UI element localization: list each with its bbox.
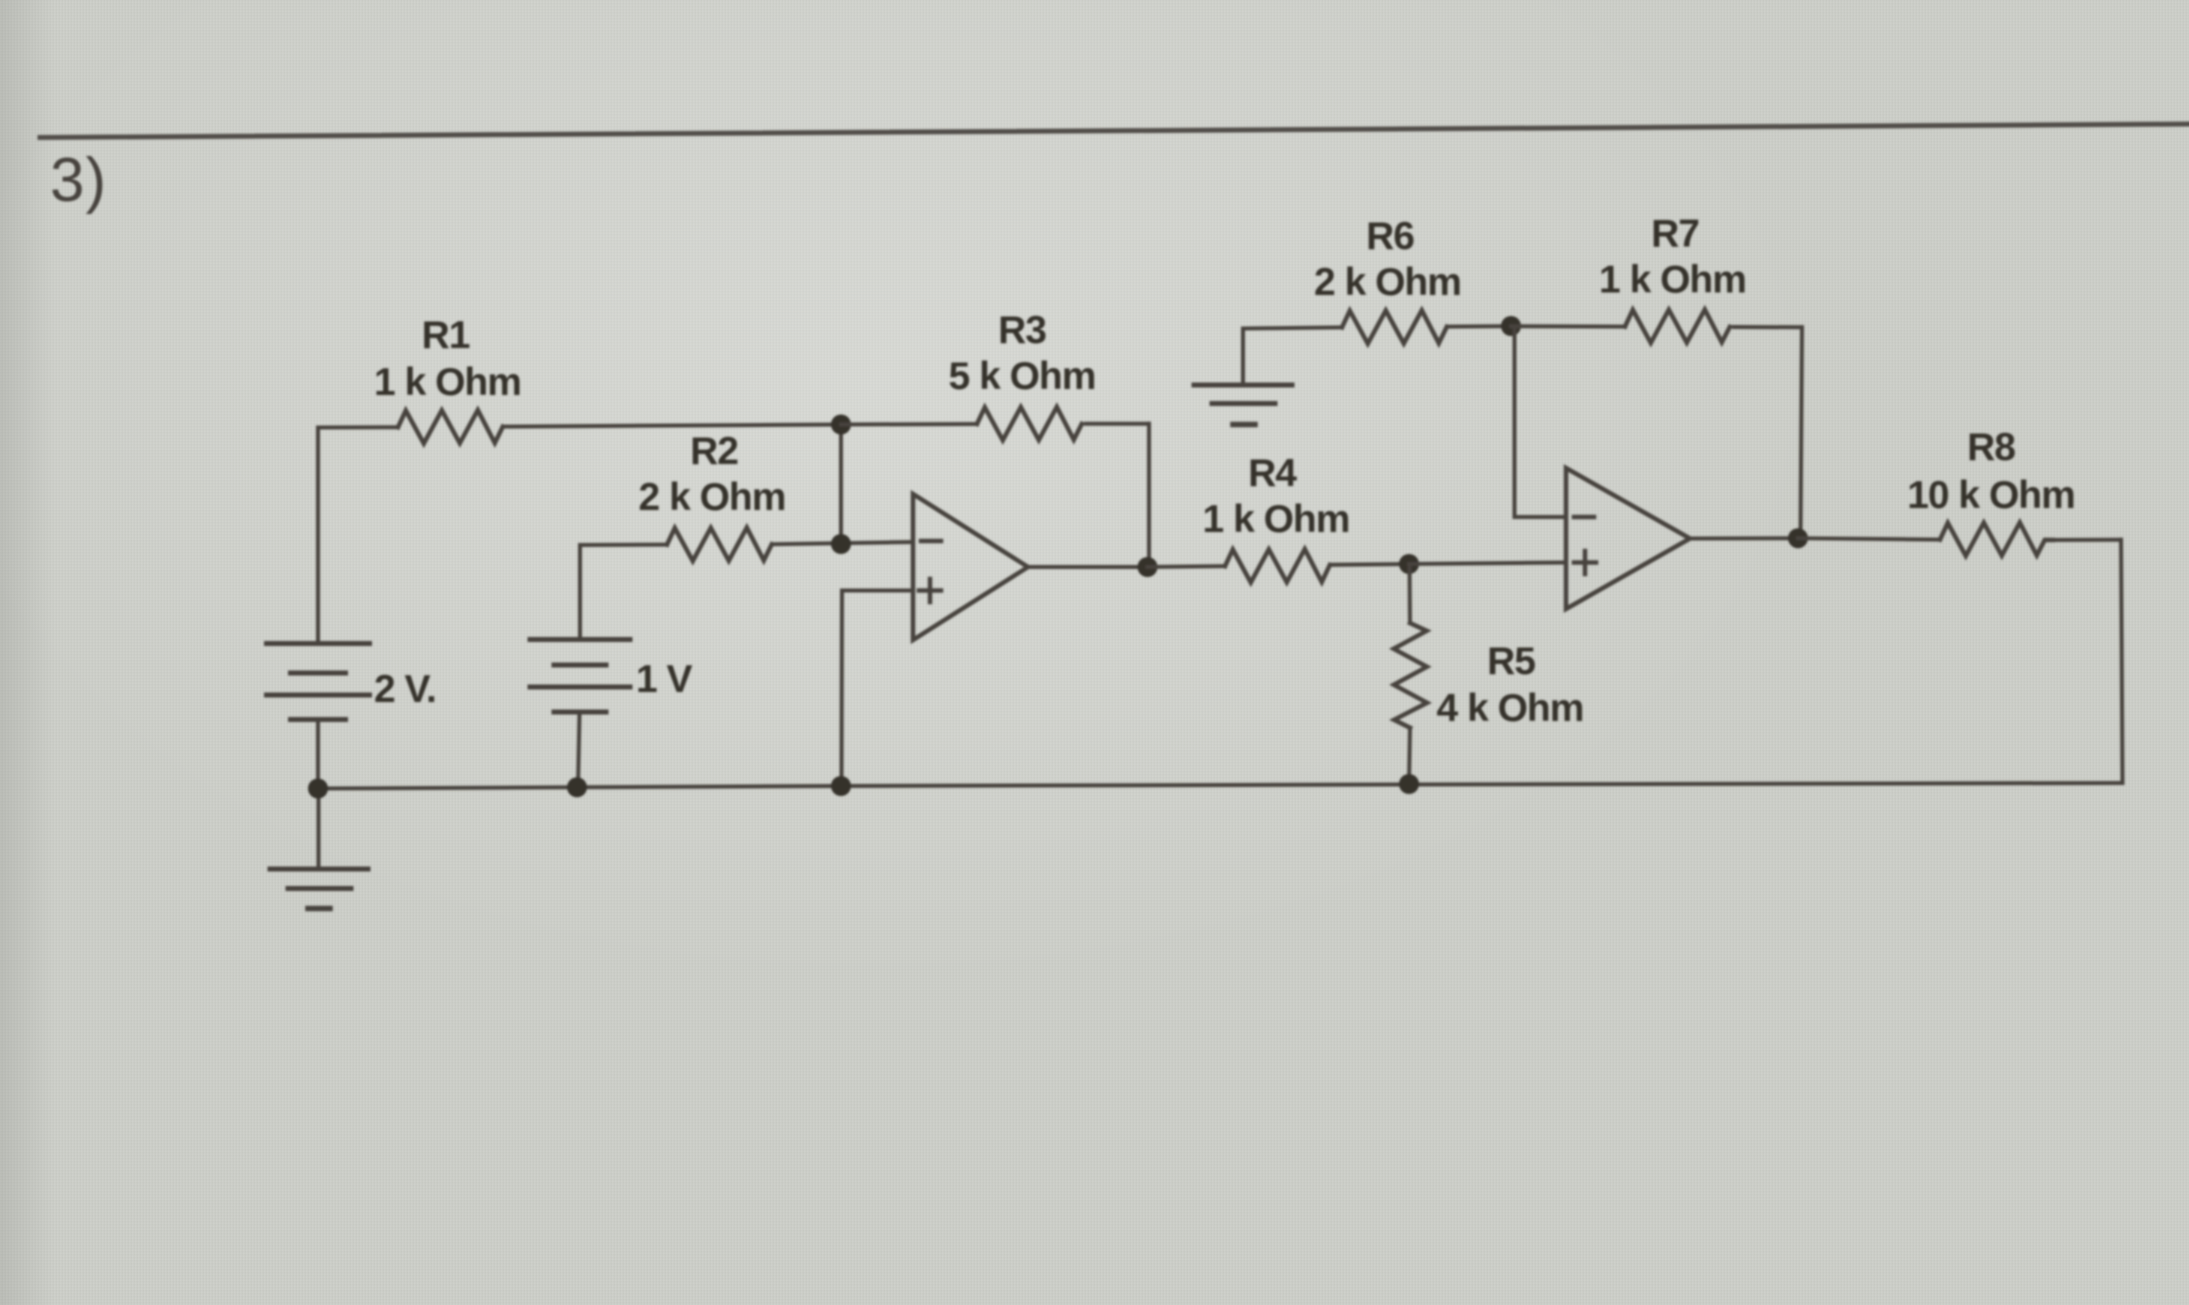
- node: R4/R5/op2+ junction dot: [1399, 554, 1419, 574]
- svg-text:R7: R7: [1651, 213, 1699, 256]
- svg-text:R5: R5: [1487, 640, 1535, 683]
- svg-text:R6: R6: [1366, 215, 1414, 258]
- ground symbol G2 (bottom left): [270, 869, 368, 909]
- node: R6/R7 junction dot: [1501, 316, 1521, 336]
- top rule: [40, 124, 2189, 138]
- resistor R2 (2 k Ohm) leads: [580, 543, 667, 547]
- resistor R7 (1 k Ohm) leads: [1511, 324, 1625, 328]
- resistor R1 (1 k Ohm) leads: [318, 425, 398, 429]
- wire: left riser from R1 line down to battery V1 top: [316, 428, 320, 645]
- resistor R4 zigzag: [1225, 549, 1330, 582]
- resistor R7 zigzag: [1625, 310, 1730, 343]
- svg-text:1 k Ohm: 1 k Ohm: [374, 361, 521, 404]
- node: bottom rail / R5 junction dot: [1399, 774, 1419, 794]
- wire: op1 non-inverting riser down to bottom rail: [840, 591, 845, 787]
- op-amp U2 plus sign: [1574, 560, 1596, 565]
- resistor R6 (2 k Ohm) leads: [1243, 327, 1342, 328]
- op-amp U2 minus sign: [1574, 515, 1594, 520]
- node A junction dot (R1/R3): [831, 415, 851, 435]
- node: bottom rail / op1+ junction dot: [831, 776, 851, 796]
- wire: op2 output to node: [1690, 536, 1798, 540]
- wire: feedback right drop from R7 to op2 output: [1801, 327, 1803, 538]
- svg-text:1 k Ohm: 1 k Ohm: [1599, 259, 1746, 302]
- ground symbol G1 riser (left of R6): [1241, 329, 1245, 386]
- svg-text:R4: R4: [1248, 452, 1297, 495]
- resistor R5 (4 k Ohm) top lead: [1408, 564, 1413, 623]
- node: op2 output junction dot: [1788, 528, 1808, 548]
- svg-text:R8: R8: [1967, 426, 2015, 469]
- resistor R8 (10 k Ohm) leads: [1798, 538, 1940, 539]
- wire: right edge drop from R8 to bottom rail: [2121, 540, 2123, 783]
- op-amp U1 plus sign: [919, 588, 941, 593]
- svg-text:R3: R3: [998, 309, 1046, 352]
- svg-text:2 k Ohm: 2 k Ohm: [639, 476, 786, 519]
- svg-text:1 k Ohm: 1 k Ohm: [1203, 498, 1350, 541]
- node: op1 output junction dot: [1138, 557, 1158, 577]
- node: bottom rail / V2 junction dot: [567, 777, 587, 797]
- battery V2 (1 V): [530, 640, 630, 713]
- wire: op2 inverting input drop from R6/R7 node: [1515, 327, 1567, 518]
- svg-text:4 k Ohm: 4 k Ohm: [1437, 687, 1584, 730]
- svg-text:2 k Ohm: 2 k Ohm: [1314, 261, 1461, 304]
- resistor R5 bottom lead: [1409, 728, 1410, 784]
- resistor R4 (1 k Ohm) leads: [1148, 564, 1226, 569]
- resistor R1 zigzag: [398, 410, 503, 443]
- resistor R8 zigzag: [1940, 523, 2053, 556]
- op-amp U2 triangle: [1566, 468, 1690, 609]
- node B junction dot (R2 / op1 inverting): [831, 534, 851, 554]
- svg-text:3): 3): [50, 146, 107, 215]
- resistor R5 zigzag (vertical): [1394, 623, 1427, 728]
- ground symbol G2 (bottom left) riser: [317, 789, 321, 869]
- wire: riser from R2 left end down to battery V2 top: [578, 545, 582, 640]
- svg-text:1 V: 1 V: [636, 658, 693, 701]
- op-amp U1 minus sign: [921, 539, 941, 544]
- battery V1 (2 V): [267, 644, 370, 720]
- wire: node A down to node B (op1 inverting input column): [839, 425, 843, 545]
- svg-text:2 V.: 2 V.: [374, 668, 436, 711]
- svg-text:10 k Ohm: 10 k Ohm: [1907, 474, 2075, 517]
- node: bottom rail / V1 junction dot: [308, 779, 328, 799]
- resistor R3 (5 k Ohm) leads: [841, 422, 977, 427]
- op-amp U1 triangle: [913, 494, 1028, 640]
- svg-text:R2: R2: [690, 430, 738, 473]
- resistor R6 zigzag: [1342, 310, 1447, 343]
- wire: node to op2 non-inverting input: [1409, 563, 1566, 565]
- wire: battery V2 bottom lead: [578, 712, 580, 788]
- wire: op1 non-inverting input lead: [842, 589, 913, 593]
- svg-text:R1: R1: [422, 314, 470, 357]
- ground symbol G1: [1194, 385, 1292, 425]
- wire: op1 output to node: [1028, 565, 1149, 569]
- resistor R2 zigzag: [667, 528, 772, 561]
- svg-text:5 k Ohm: 5 k Ohm: [949, 355, 1096, 398]
- resistor R3 zigzag: [977, 407, 1082, 440]
- wire: battery V1 bottom lead: [316, 720, 320, 790]
- wire: bottom rail: [318, 783, 2123, 789]
- wire: R3 right drop to op1 output node: [1147, 424, 1151, 567]
